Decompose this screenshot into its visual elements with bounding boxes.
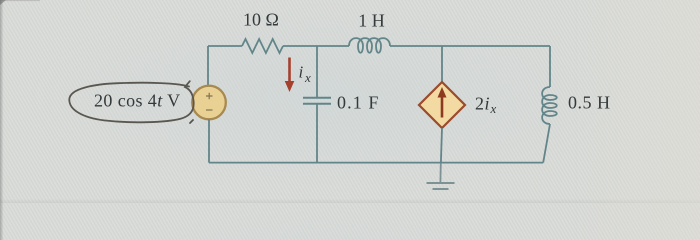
- svg-text:20 cos 4t V: 20 cos 4t V: [94, 91, 181, 111]
- voltage source VS1 20cos4t circle: [192, 86, 226, 120]
- svg-text:0.1 F: 0.1 F: [337, 93, 380, 113]
- svg-text:10 Ω: 10 Ω: [243, 10, 279, 30]
- inductor 1 H: [349, 38, 390, 53]
- wire dependent-source branch upper: [441, 46, 443, 82]
- dependent source inner arrow: [438, 87, 447, 118]
- value label 1 H: [358, 11, 385, 31]
- photo corner smudge top-left: [0, 0, 40, 5]
- pencil tick mark near circle bottom: [190, 120, 193, 123]
- wire bottom rail: [209, 162, 543, 164]
- wire top rail left segment: [208, 45, 242, 47]
- label ix: [299, 63, 312, 86]
- wire middle branch lower: [316, 104, 318, 163]
- svg-text:1 H: 1 H: [358, 11, 385, 31]
- wire top rail middle segment: [283, 45, 349, 47]
- wire bottom-left vertical (source to bottom rail): [208, 119, 210, 162]
- value label 2ix: [475, 94, 497, 117]
- svg-text:0.5 H: 0.5 H: [568, 93, 611, 113]
- ground bar 2: [433, 188, 449, 190]
- hand-drawn pencil loop around label: [69, 81, 193, 122]
- ground stem: [439, 163, 441, 183]
- wire dependent-source branch lower: [441, 128, 442, 163]
- current arrow ix (red): [285, 58, 295, 93]
- wire right branch lower: [543, 124, 550, 163]
- wire top rail right segment: [390, 45, 550, 47]
- value label 10 ohm: [243, 10, 279, 30]
- wire top-left vertical (source to top rail): [207, 46, 209, 86]
- svg-text:x: x: [304, 70, 311, 85]
- voltage source minus sign: [206, 109, 213, 111]
- svg-text:i: i: [299, 63, 304, 82]
- svg-text:2: 2: [475, 94, 484, 114]
- dependent current source 2ix diamond: [419, 82, 465, 128]
- wire right branch upper: [549, 46, 551, 87]
- capacitor 0.1 F plates: [303, 98, 331, 104]
- value label 0.1 F: [337, 93, 380, 113]
- svg-text:x: x: [490, 101, 497, 116]
- svg-text:i: i: [485, 94, 490, 114]
- wire middle branch upper: [316, 46, 318, 97]
- value label 0.5 H: [568, 93, 611, 113]
- ground bar 1: [427, 182, 455, 184]
- value label 20 cos 4t V: [94, 91, 181, 111]
- voltage source plus sign: [206, 93, 213, 99]
- inductor 0.5 H: [542, 87, 557, 124]
- resistor 10 ohm: [242, 39, 283, 53]
